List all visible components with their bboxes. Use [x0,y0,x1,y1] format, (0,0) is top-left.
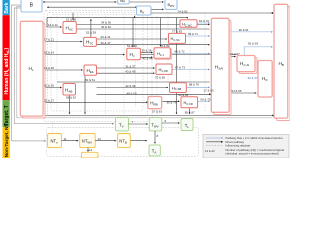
svg-text:74 & 82: 74 & 82 [178,9,188,13]
svg-text:60 & 66: 60 & 66 [179,93,189,97]
svg-text:85 & 87: 85 & 87 [185,111,195,115]
svg-text:69 & 75: 69 & 75 [201,98,211,102]
svg-text:11: 11 [64,137,67,141]
svg-text:20 & 26: 20 & 26 [44,84,54,88]
svg-text:51 & 58: 51 & 58 [66,17,76,21]
svg-text:25 & 27: 25 & 27 [44,98,54,102]
svg-text:52 & 59: 52 & 59 [86,30,96,34]
svg-text:67 & 73: 67 & 73 [175,66,185,70]
svg-text:42 & 48: 42 & 48 [143,57,153,61]
svg-text:48 & 50: 48 & 50 [127,92,137,96]
svg-text:Non-Target, NT: Non-Target, NT [4,124,9,158]
svg-text:30 & 79: 30 & 79 [167,100,177,104]
svg-text:77 & 83: 77 & 83 [172,29,182,33]
svg-text:14 & 22: 14 & 22 [205,149,215,153]
svg-text:Target, T: Target, T [4,105,10,126]
svg-text:44 & 57: 44 & 57 [230,52,240,56]
svg-text:56 & 62: 56 & 62 [66,96,76,100]
svg-text:30 & 36: 30 & 36 [142,49,152,53]
svg-text:68 & 76: 68 & 76 [189,83,199,87]
svg-text:64 & 70: 64 & 70 [199,19,209,23]
svg-text:Bark: Bark [4,2,10,13]
svg-text:19 & 25: 19 & 25 [44,66,54,70]
svg-text:78 & 84: 78 & 84 [160,44,170,48]
svg-text:13: 13 [98,137,102,141]
svg-text:17 & 63: 17 & 63 [204,88,214,92]
svg-text:43 & 49: 43 & 49 [125,69,135,73]
svg-text:90 & 91: 90 & 91 [239,28,249,32]
svg-text:individual, second = immunocom: individual, second = immunocompromised) [226,151,279,155]
svg-text:40 & 46: 40 & 46 [101,25,111,29]
svg-text:Human (HL and HaL): Human (HL and HaL) [4,48,10,95]
svg-text:Influencing rate/part: Influencing rate/part [226,144,251,148]
svg-text:16 & 11: 16 & 11 [48,23,58,27]
svg-text:18 & 14: 18 & 14 [44,51,54,55]
svg-text:40 & 47: 40 & 47 [101,41,111,45]
svg-text:29 & 31: 29 & 31 [101,35,111,39]
svg-text:54 & 55: 54 & 55 [232,89,242,93]
svg-text:57 & 63: 57 & 63 [152,109,162,113]
svg-text:17 & 21: 17 & 21 [44,38,54,42]
svg-text:34 & 36: 34 & 36 [101,21,111,25]
svg-text:32 & 38: 32 & 38 [125,84,135,88]
svg-text:65 & 71: 65 & 71 [188,32,198,36]
svg-text:70 & 66: 70 & 66 [155,76,165,80]
svg-text:50 & 61: 50 & 61 [85,78,95,82]
svg-text:54 & 60: 54 & 60 [127,44,137,48]
svg-text:36 & 37: 36 & 37 [248,76,258,80]
svg-text:14: 14 [89,148,93,152]
svg-text:66 & 72: 66 & 72 [175,50,185,54]
svg-text:31 & 37: 31 & 37 [125,64,135,68]
svg-text:92 & 93: 92 & 93 [248,41,258,45]
